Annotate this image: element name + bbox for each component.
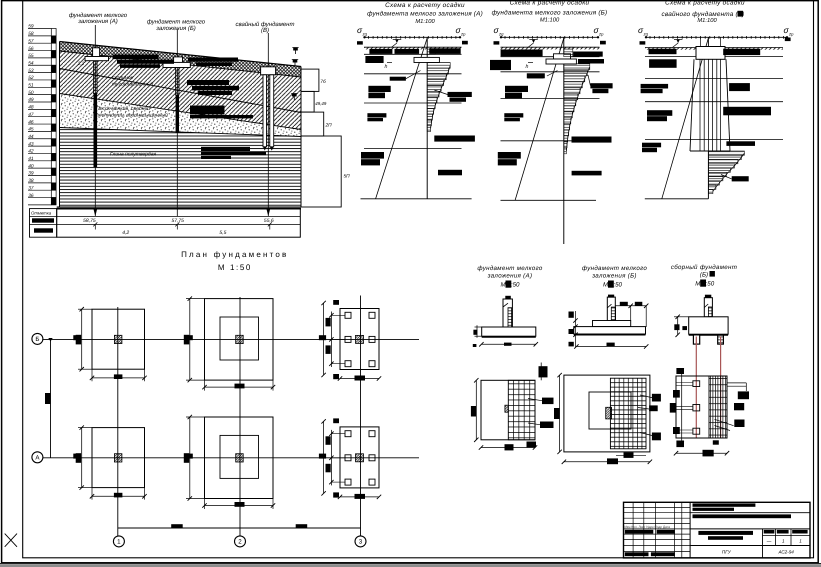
svg-text:54: 54 <box>28 60 34 66</box>
foundation 3B: inner left dimension line <box>330 312 332 368</box>
svg-text:1: 1 <box>117 539 121 546</box>
scheme B: surface tick band <box>501 47 600 49</box>
svg-text:h: h <box>385 64 388 70</box>
title block: document designation blocks <box>693 503 756 506</box>
svg-text:2П: 2П <box>325 123 333 129</box>
svg-text:47: 47 <box>28 112 34 118</box>
borehole 1 solid core <box>94 94 98 168</box>
scheme B: datum flag <box>532 40 535 44</box>
ground surface line <box>60 42 302 67</box>
detail A plan: rebar mesh <box>508 380 535 440</box>
foundation 2B: outer footing <box>205 299 274 381</box>
scheme B: vertical axis <box>563 37 565 244</box>
detail B plan: rebar mesh <box>610 378 646 449</box>
detail A section: column stem <box>503 299 512 327</box>
sand top boundary <box>60 94 302 130</box>
svg-text:(Б): (Б) <box>700 272 708 279</box>
dimension table frame <box>57 209 301 238</box>
detail V section: column stem <box>704 298 712 317</box>
scheme A: leader line <box>434 90 447 95</box>
detail A plan: top-right leader <box>540 363 542 381</box>
svg-text:—: — <box>766 538 772 543</box>
scheme V: surface tick band <box>645 48 783 50</box>
scheme A: foundation outline <box>414 57 439 62</box>
foundation 2A: column (hatched) <box>236 454 244 462</box>
annotation blob in sand layer <box>190 106 225 115</box>
svg-text:56: 56 <box>28 46 34 52</box>
svg-text:М1:100: М1:100 <box>415 18 435 25</box>
scheme V: pile group <box>690 59 730 151</box>
scheme V: hatched ground line <box>645 36 788 39</box>
detail B section: top dimension line <box>615 305 646 307</box>
foundation 1A: footing outline <box>92 428 145 488</box>
scheme V: axis below piles <box>707 37 709 46</box>
detail V plan: left dimension line <box>681 371 683 444</box>
foundation 3A: inner left dimension line <box>330 430 332 486</box>
corner X mark <box>5 534 17 547</box>
page bottom shadow line <box>0 563 821 565</box>
foundation 2A: left dimension line <box>189 417 191 499</box>
title block: outer box <box>624 502 811 558</box>
scheme A: datum flag <box>395 40 398 44</box>
foundation 1A: bottom dimension text block <box>114 493 123 498</box>
borehole 1 axis (foundation A) <box>94 25 96 216</box>
svg-text:5,5: 5,5 <box>219 230 226 236</box>
grid axis 1 vertical <box>117 307 119 536</box>
grid circle 1 <box>113 536 124 547</box>
svg-text:58: 58 <box>28 31 34 37</box>
svg-text:Глина полутвердая: Глина полутвердая <box>110 152 156 158</box>
topsoil layer (crosshatch) <box>60 42 302 78</box>
scheme V: sigma-zp diagram below pile tips <box>708 151 744 194</box>
groundwater level mark <box>291 94 297 101</box>
detail B section: upper step <box>593 321 631 327</box>
detail B plan: inner step outline <box>589 392 631 429</box>
foundation 2A: left dimension text block <box>184 453 189 463</box>
svg-text:суглинок: суглинок <box>112 75 133 81</box>
depth box 1 <box>301 69 319 91</box>
loam internal boundary <box>60 69 302 113</box>
borehole 2 solid core <box>176 95 179 133</box>
foundation 1B: left dimension line <box>81 309 83 369</box>
detail A section: bottom dimension <box>481 343 535 345</box>
foundation 3B: column (hatched) <box>356 335 364 343</box>
svg-text:М1:100: М1:100 <box>697 17 717 24</box>
foundation 3B: bottom dimension line <box>340 378 379 380</box>
elevation staff <box>28 24 56 205</box>
annotation blobs in clay layer <box>201 147 250 151</box>
grid circle B <box>32 333 43 344</box>
svg-text:свайного фундамента (Б): свайного фундамента (Б) <box>661 11 744 18</box>
scheme V: bottom line <box>645 198 709 200</box>
depth box 2 <box>301 91 314 112</box>
foundation B footing <box>163 62 190 67</box>
annotation blobs below foundation B <box>187 80 229 85</box>
clay layer (horizontal lines) <box>60 128 302 208</box>
survey mark 2 <box>292 60 298 67</box>
svg-text:3: 3 <box>359 539 363 546</box>
projection line right (red) <box>720 337 722 438</box>
scheme A: layer boundary lines <box>364 47 462 148</box>
svg-text:Песок мелкий, средней: Песок мелкий, средней <box>96 106 150 112</box>
svg-text:zp: zp <box>460 32 466 37</box>
svg-text:План фундаментов: План фундаментов <box>181 250 288 259</box>
svg-text:Схема к расчету осадки: Схема к расчету осадки <box>385 2 465 9</box>
svg-text:59: 59 <box>28 24 34 30</box>
foundation 1A: left dimension text block <box>76 453 81 463</box>
scheme V: sigma label leader <box>721 175 732 179</box>
scheme A: bottom line <box>361 198 472 200</box>
svg-text:53: 53 <box>28 68 34 74</box>
borehole 2 axis (foundation B) <box>176 29 178 216</box>
svg-text:4,2: 4,2 <box>122 230 129 236</box>
section bottom double line <box>57 206 301 208</box>
foundation 2B: column (hatched) <box>236 335 244 343</box>
annotation blobs near foundation A <box>113 55 159 60</box>
detail B plan: right leaders <box>640 395 652 398</box>
detail B section: stem chamfer <box>607 304 611 308</box>
svg-text:фундамент мелкого: фундамент мелкого <box>582 265 647 272</box>
svg-text:41: 41 <box>28 156 34 162</box>
svg-text:zg: zg <box>498 32 504 37</box>
svg-text:плотности, водонасыщенный: плотности, водонасыщенный <box>96 113 168 119</box>
scheme V: sigma label block <box>732 176 749 181</box>
pile foundation axis <box>267 33 269 216</box>
foundation 1B: column (hatched) <box>114 335 122 343</box>
foundation 2B: left dimension line <box>189 299 191 381</box>
detail B section: column stem <box>607 297 615 320</box>
grid axis B horizontal <box>42 338 419 340</box>
scheme A: leader line <box>406 71 421 79</box>
foundation 2B: bottom dimension line <box>205 386 274 388</box>
scheme A: vertical axis <box>426 37 428 199</box>
svg-text:49,49: 49,49 <box>315 101 327 106</box>
borehole 1 hatched shaft <box>94 60 98 94</box>
foundation 3A: pile cap outline <box>340 427 379 488</box>
svg-text:1: 1 <box>782 538 785 543</box>
detail V section: pile stubs <box>693 335 699 344</box>
detail V plan: pile leader lines <box>676 382 693 384</box>
svg-text:5П: 5П <box>344 174 351 180</box>
svg-text:заложения (А): заложения (А) <box>487 272 533 279</box>
detail V plan: left dimension blocks <box>676 368 684 374</box>
scheme A: upper annotation bars <box>369 49 392 54</box>
foundation 3B: dimension text blocks <box>326 318 331 327</box>
svg-text:zg: zg <box>362 32 368 37</box>
svg-text:zg: zg <box>643 32 649 37</box>
svg-text:фундамент мелкого: фундамент мелкого <box>69 12 128 19</box>
detail B plan: outline <box>564 375 650 452</box>
table tick marks <box>93 222 97 226</box>
svg-text:37: 37 <box>28 185 34 191</box>
svg-text:38: 38 <box>28 178 34 184</box>
scheme B: foundation outline <box>554 54 571 59</box>
detail A plan: bottom dimension <box>481 447 535 449</box>
svg-text:7б: 7б <box>320 79 326 85</box>
bottom axis connector <box>118 527 361 529</box>
foundation 2A: bottom dimension line <box>205 505 274 507</box>
svg-text:Б: Б <box>35 336 39 343</box>
svg-text:57,75: 57,75 <box>171 218 184 224</box>
detail B section: rebar ladder <box>611 307 615 333</box>
svg-text:44: 44 <box>28 134 34 140</box>
detail A plan: right leaders <box>528 399 542 401</box>
scheme A: end squares <box>357 41 363 44</box>
depth box 3 <box>301 112 324 136</box>
foundation 1B: bottom dimension text block <box>114 374 123 379</box>
title block: left columns grid <box>624 502 691 558</box>
foundation 2A: bottom dimension text block <box>235 502 245 507</box>
foundation 1A: column (hatched) <box>114 454 122 462</box>
title block: drawing name blocks <box>698 531 753 535</box>
foundation 2A: inner step <box>220 435 259 478</box>
annotation streaks right of foundation B <box>188 58 238 62</box>
svg-text:М1:100: М1:100 <box>540 17 560 24</box>
grid circle A <box>32 452 43 463</box>
title block: right section lines <box>690 512 810 514</box>
svg-text:2,2: 2,2 <box>77 61 85 67</box>
scheme A: hatched ground line <box>363 36 461 39</box>
svg-text:51: 51 <box>28 83 34 89</box>
svg-text:1: 1 <box>799 538 802 543</box>
detail A section: footing <box>482 327 536 336</box>
detail V section: stem chamfer <box>704 304 708 308</box>
scheme V: pile cap <box>696 47 725 60</box>
borehole 2 hatched shaft <box>176 67 179 95</box>
scheme B: sigma-zp stepped diagram <box>564 64 590 154</box>
foundation 3B: pile cap outline <box>340 309 379 370</box>
svg-text:Схема к расчету осадки: Схема к расчету осадки <box>665 0 745 6</box>
detail A section: base thick line <box>482 336 536 338</box>
survey mark 1 <box>292 48 298 55</box>
scheme B: leader line <box>588 75 590 86</box>
loam layer (diagonal hatch) <box>60 51 302 130</box>
clay top boundary <box>60 128 302 137</box>
svg-text:Отметка: Отметка <box>31 211 52 216</box>
detail V plan: right leaders <box>734 403 744 410</box>
svg-text:48: 48 <box>28 105 34 111</box>
title block: stage/sheet header blocks <box>764 530 775 534</box>
svg-text:46: 46 <box>28 119 34 125</box>
svg-text:52: 52 <box>28 75 34 81</box>
foundation A stem <box>93 48 100 57</box>
foundation 2B: bottom dimension text block <box>235 384 245 389</box>
svg-text:заложения (Б): заложения (Б) <box>591 273 637 280</box>
detail A section: rebar ladder <box>508 308 512 337</box>
foundation 3A: column (hatched) <box>356 454 364 462</box>
svg-text:АС2-94: АС2-94 <box>778 550 795 555</box>
detail A plan: mesh mark <box>505 405 508 412</box>
left pile <box>263 75 267 147</box>
table legend box <box>30 209 57 238</box>
scheme V: upper annotation bars <box>649 49 677 55</box>
right pile <box>270 75 274 147</box>
scheme B: end squares <box>494 41 500 44</box>
scheme B: hatched ground line <box>500 36 599 39</box>
topsoil bottom boundary <box>60 51 302 77</box>
foundation 1B: left dimension text block <box>76 335 81 345</box>
svg-text:тугопластичный: тугопластичный <box>112 82 154 88</box>
svg-text:заложения (Б): заложения (Б) <box>155 25 195 32</box>
scheme B: leader line <box>547 71 558 77</box>
svg-text:49: 49 <box>28 97 34 103</box>
svg-text:h: h <box>526 64 529 70</box>
axis dimension blocks <box>73 335 80 340</box>
scheme A: redacted annotation blocks <box>365 56 383 63</box>
scheme V: end squares <box>640 41 646 44</box>
grid axis 3 vertical <box>360 296 362 537</box>
detail B plan: column mark <box>606 407 612 419</box>
svg-text:фундамент мелкого: фундамент мелкого <box>477 265 542 272</box>
foundation 3A: outer left dimension line <box>323 421 325 493</box>
foundation 3B: piles (6 squares) <box>345 312 375 366</box>
title block: left redacted rows <box>625 530 654 534</box>
svg-text:свайный фундамент: свайный фундамент <box>236 21 295 28</box>
projection line left (red) <box>695 337 697 438</box>
svg-text:сборный фундамент: сборный фундамент <box>671 264 737 271</box>
svg-text:57: 57 <box>28 38 34 44</box>
svg-text:55: 55 <box>28 53 34 59</box>
svg-text:заложения (А): заложения (А) <box>77 18 118 25</box>
scheme B: small top stress bar <box>564 47 573 57</box>
foundation 1B: footing outline <box>92 309 145 369</box>
foundation 3A: bottom dimension line <box>340 496 379 498</box>
axis connector B-A <box>50 339 52 457</box>
foundation 2A: outer footing <box>205 417 274 499</box>
foundation B stem <box>174 57 183 63</box>
detail V section: rebar ladder <box>708 307 712 333</box>
scheme V: redacted annotation blocks <box>649 59 677 68</box>
scheme V: datum flag <box>676 40 679 44</box>
section right edge <box>300 67 302 208</box>
detail A plan: outline <box>481 380 535 440</box>
scheme A: surface tick band <box>364 47 462 49</box>
scheme A: sigma-zg sloped line <box>376 38 428 199</box>
bottom gray band <box>0 565 821 567</box>
pile axis bottom arrow <box>267 210 270 217</box>
scheme B: bottom line <box>501 199 597 201</box>
detail B section: left bracket and blocks <box>575 311 577 347</box>
svg-text:zp: zp <box>598 32 604 37</box>
foundation 1A: left dimension line <box>81 428 83 488</box>
detail B plan: left dimension <box>559 375 561 452</box>
svg-text:ПГУ: ПГУ <box>722 550 732 555</box>
detail A section: left bracket <box>476 325 478 337</box>
detail B plan: bottom dimensions <box>616 454 646 456</box>
pile cap <box>261 67 276 75</box>
detail V plan: right top leader <box>727 382 746 384</box>
detail A section: stem chamfer <box>503 303 508 307</box>
scheme B: layer boundary lines <box>501 47 600 141</box>
svg-text:36: 36 <box>28 193 34 199</box>
foundation 2B: inner step <box>220 317 259 360</box>
svg-text:фундамента мелкого заложения: фундамента мелкого заложения (Б) <box>492 10 608 17</box>
detail V section: cap <box>689 317 728 334</box>
foundation 1A: bottom dimension line <box>92 495 145 497</box>
svg-text:42: 42 <box>28 149 34 155</box>
grid axis A horizontal <box>42 457 419 459</box>
svg-text:43: 43 <box>28 141 34 147</box>
detail V plan: outline <box>676 376 727 438</box>
svg-text:фундамента мелкого заложения (: фундамента мелкого заложения (А) <box>367 10 483 17</box>
detail B section: top block <box>608 295 614 298</box>
foundation 3B: outer left dimension line <box>323 303 325 375</box>
svg-text:zp: zp <box>788 32 794 37</box>
foundation A footing <box>85 57 109 61</box>
borehole 1 bottom arrow <box>94 210 97 217</box>
svg-text:39: 39 <box>28 171 34 177</box>
detail B section: bottom dimension <box>576 346 646 348</box>
foundation 3A: piles (6 squares) <box>345 431 375 485</box>
detail V section: left bracket <box>677 316 679 335</box>
grid circle 2 <box>235 536 246 547</box>
section left edge <box>59 42 61 208</box>
scheme B: upper annotation bars <box>501 50 543 57</box>
detail V plan: rebar mesh <box>709 376 727 438</box>
svg-text:фундамент мелкого: фундамент мелкого <box>147 18 206 25</box>
detail B section: base slab <box>574 327 646 334</box>
svg-text:40: 40 <box>28 163 34 169</box>
scheme V: sigma-zg sloped line <box>662 38 709 199</box>
scheme B: redacted annotation blocks <box>490 60 511 70</box>
foundation 3A: dimension text blocks <box>326 436 331 445</box>
svg-text:2: 2 <box>238 539 242 546</box>
svg-text:Схема к расчету осадки: Схема к расчету осадки <box>510 0 590 7</box>
svg-text:(В): (В) <box>261 27 269 34</box>
depth box 4 <box>301 136 341 207</box>
svg-text:45: 45 <box>28 127 34 133</box>
foundation 1B: bottom dimension line <box>92 377 145 379</box>
svg-text:Изм Кол. Лист Nдок Подп Дата: Изм Кол. Лист Nдок Подп Дата <box>625 525 671 529</box>
svg-text:58,75: 58,75 <box>83 218 96 224</box>
detail A section: top block <box>505 296 511 299</box>
svg-text:М 1:50: М 1:50 <box>218 263 252 272</box>
scheme B: sigma-zg sloped line <box>515 38 564 200</box>
scheme V: layer boundary lines <box>645 48 783 140</box>
detail V plan: pile squares <box>693 381 700 387</box>
grid axis 2 vertical <box>239 297 241 536</box>
detail V plan: bottom dimensions <box>713 440 719 444</box>
svg-text:55,6: 55,6 <box>264 218 274 224</box>
svg-text:50: 50 <box>28 90 34 96</box>
scheme A: sigma-zp stepped diagram <box>427 63 450 132</box>
grid circle 3 <box>355 536 366 547</box>
detail A plan: left dimension line <box>475 380 477 440</box>
sand layer (dots) <box>60 94 302 137</box>
detail V section: left blocks <box>674 324 679 330</box>
detail V section: top block <box>705 295 711 298</box>
scheme A: small top stress bar <box>427 47 435 54</box>
pile tips <box>263 147 267 151</box>
foundation 2B: left dimension text block <box>184 335 189 345</box>
